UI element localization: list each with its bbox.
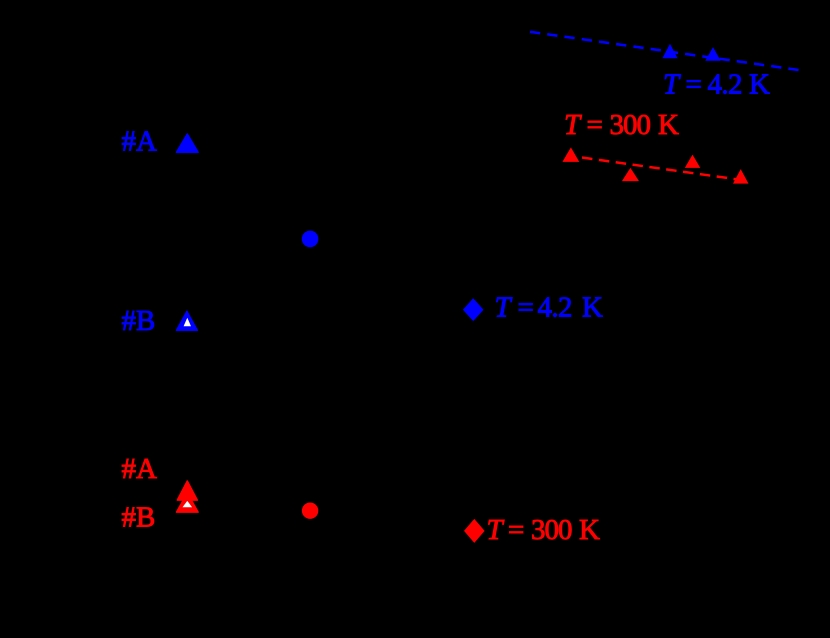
svg-text:#B: #B	[122, 502, 156, 534]
blue filled triangle marker #A	[177, 134, 199, 152]
svg-text:#A: #A	[122, 125, 158, 157]
red filled diamond marker	[464, 519, 485, 543]
blue filled diamond marker	[463, 298, 484, 321]
blue open triangle marker #B	[177, 311, 198, 330]
red filled triangle marker #A	[177, 481, 197, 500]
blue triangle on line 1	[662, 44, 677, 59]
blue filled circle marker	[302, 231, 319, 248]
red triangle on line 2	[622, 168, 639, 181]
red triangle on line 1	[562, 147, 579, 162]
blue triangle on line 2	[705, 47, 720, 61]
red triangle on line 3	[685, 155, 701, 168]
red filled circle marker	[302, 503, 318, 519]
svg-text:#A: #A	[122, 453, 158, 485]
svg-text:T=4.2K: T=4.2K	[663, 69, 770, 101]
red dashed fit line (300 K)	[582, 158, 748, 181]
svg-text:#B: #B	[122, 305, 156, 337]
red open triangle marker #B (drawn under filled one)	[177, 493, 199, 512]
red triangle on line 4	[733, 169, 749, 184]
blue dashed fit line (4.2 K)	[530, 32, 799, 70]
